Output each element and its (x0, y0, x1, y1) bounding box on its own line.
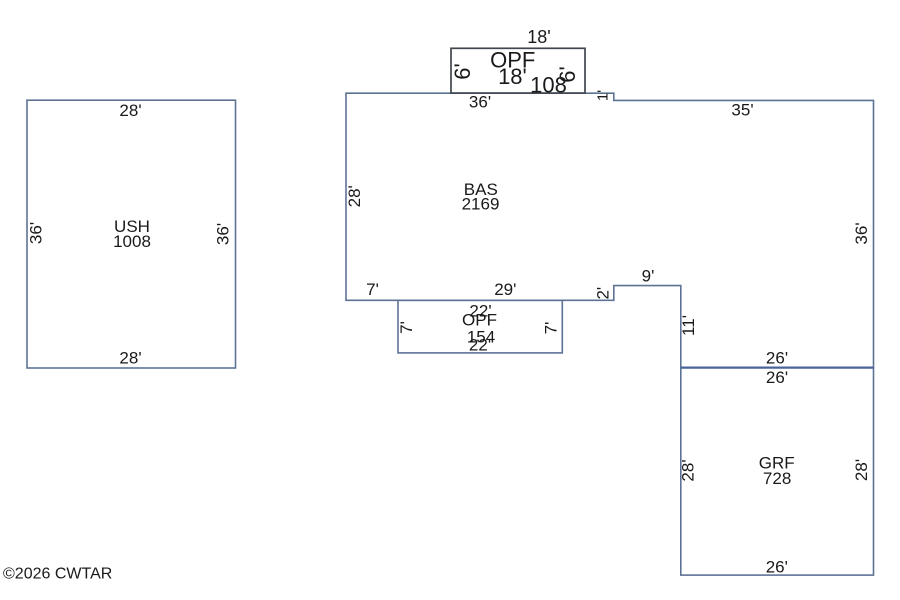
area BAS outline (346, 93, 874, 367)
svg-text:9': 9' (642, 267, 655, 286)
svg-text:6': 6' (555, 66, 580, 82)
svg-text:7': 7' (542, 322, 561, 335)
svg-text:11': 11' (679, 315, 698, 336)
svg-text:2': 2' (594, 287, 613, 300)
shared wall BAS/GRF (681, 367, 874, 369)
svg-text:36': 36' (469, 92, 491, 111)
area GRF outline (681, 368, 874, 575)
svg-text:22': 22' (469, 336, 491, 355)
svg-text:2169: 2169 (462, 195, 500, 214)
svg-text:26': 26' (766, 368, 788, 387)
svg-text:28': 28' (852, 459, 871, 481)
svg-text:28': 28' (119, 349, 141, 368)
svg-text:36': 36' (852, 222, 871, 244)
svg-text:28': 28' (679, 459, 698, 481)
svg-text:7': 7' (366, 280, 379, 299)
svg-text:728: 728 (763, 469, 791, 488)
svg-text:36': 36' (214, 223, 233, 245)
svg-text:26': 26' (766, 349, 788, 368)
svg-text:1': 1' (595, 90, 612, 101)
area OPF (top porch) outline (451, 48, 585, 93)
svg-text:6': 6' (450, 63, 475, 79)
svg-text:29': 29' (494, 280, 516, 299)
svg-text:35': 35' (731, 101, 753, 120)
svg-text:18': 18' (498, 64, 527, 89)
svg-text:7': 7' (397, 321, 416, 334)
svg-text:28': 28' (119, 101, 141, 120)
area USH outline (27, 100, 236, 368)
svg-text:©2026 CWTAR: ©2026 CWTAR (3, 566, 112, 583)
svg-text:1008: 1008 (113, 232, 151, 251)
svg-text:26': 26' (766, 558, 788, 577)
svg-text:28': 28' (345, 185, 364, 207)
svg-text:36': 36' (27, 222, 46, 244)
area OPF (bottom porch) outline (398, 300, 562, 353)
svg-text:18': 18' (527, 27, 550, 47)
